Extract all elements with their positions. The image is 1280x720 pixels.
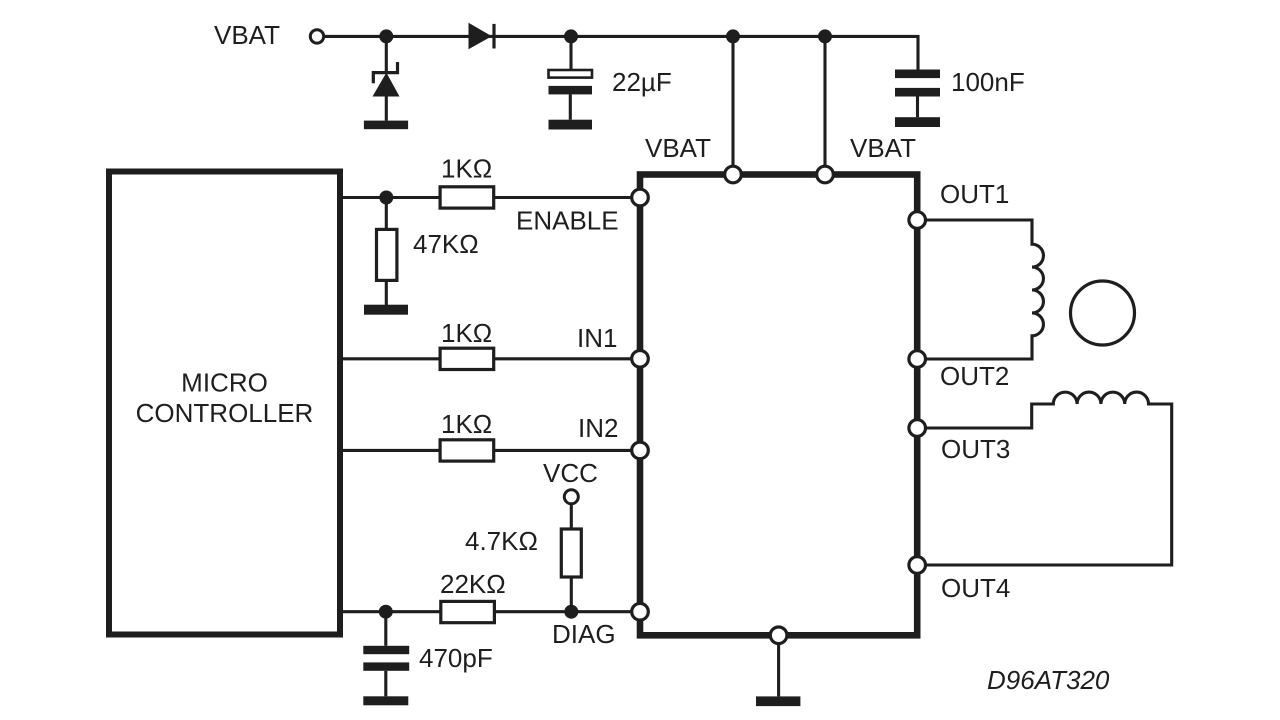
driver IC U1 bbox=[640, 175, 917, 636]
terminal VCC bbox=[564, 490, 578, 504]
pin OUT4 bbox=[909, 557, 926, 574]
junction B (22uF tap) bbox=[564, 29, 578, 43]
zener diode D2 (transient suppressor) bbox=[373, 62, 400, 121]
svg-text:1KΩ: 1KΩ bbox=[441, 409, 492, 439]
wire 47K to ground bbox=[385, 280, 388, 305]
svg-text:OUT4: OUT4 bbox=[941, 573, 1010, 603]
capacitor C2 100nF bbox=[895, 70, 940, 118]
svg-text:IN1: IN1 bbox=[577, 323, 617, 353]
junction G (4.7K to DIAG) bbox=[564, 605, 578, 619]
resistor R1 1K (ENABLE) bbox=[440, 187, 494, 208]
wire junction F down to 470pF bbox=[384, 612, 387, 646]
junction E (47K tap) bbox=[379, 191, 393, 205]
svg-text:VBAT: VBAT bbox=[850, 133, 916, 163]
junction A (zener tap) bbox=[379, 29, 393, 43]
terminal VBAT input bbox=[310, 30, 323, 43]
pin IN1 bbox=[632, 351, 649, 368]
svg-text:D96AT320: D96AT320 bbox=[987, 665, 1110, 695]
inductor L1 (motor winding OUT1-OUT2) bbox=[925, 220, 1043, 359]
pin OUT1 bbox=[909, 212, 926, 229]
junction D (VBAT pin 2 tap) bbox=[818, 29, 832, 43]
wire top rail from VBAT terminal to 100nF corner bbox=[325, 35, 919, 38]
svg-text:ENABLE: ENABLE bbox=[516, 206, 619, 236]
wire junction D down to VBAT pin 2 bbox=[823, 36, 826, 166]
wire VCC to 4.7K bbox=[570, 504, 573, 529]
ground (zener) bbox=[364, 121, 408, 130]
svg-text:MICRO: MICRO bbox=[181, 368, 268, 398]
wire junction B down to 22uF bbox=[569, 36, 572, 70]
svg-text:OUT1: OUT1 bbox=[940, 179, 1009, 209]
svg-text:OUT3: OUT3 bbox=[941, 434, 1010, 464]
ground (470pF) bbox=[363, 696, 408, 705]
pin VBAT 2 bbox=[817, 166, 834, 183]
svg-text:4.7KΩ: 4.7KΩ bbox=[465, 526, 538, 556]
svg-text:470pF: 470pF bbox=[419, 643, 493, 673]
svg-text:CONTROLLER: CONTROLLER bbox=[136, 398, 314, 428]
junction F (470pF tap) bbox=[379, 605, 393, 619]
resistor R6 22K (DIAG) bbox=[441, 601, 495, 622]
capacitor C1 22uF (polarized) bbox=[549, 70, 593, 120]
pin OUT2 bbox=[909, 351, 926, 368]
resistor R2 47K (pulldown) bbox=[377, 229, 397, 280]
motor M (circle) bbox=[1071, 281, 1135, 345]
pin IN2 bbox=[632, 442, 649, 459]
diode D1 (series, reverse battery) bbox=[469, 23, 495, 49]
pin OUT3 bbox=[909, 420, 926, 437]
svg-text:47KΩ: 47KΩ bbox=[413, 229, 479, 259]
inductor L2 (motor winding OUT3-OUT4) bbox=[925, 392, 1171, 565]
wire junction C down to VBAT pin 1 bbox=[731, 36, 734, 166]
svg-text:22KΩ: 22KΩ bbox=[440, 569, 506, 599]
wire junction E down to 47K bbox=[385, 198, 388, 230]
svg-text:22µF: 22µF bbox=[612, 67, 672, 97]
svg-text:DIAG: DIAG bbox=[552, 619, 616, 649]
svg-text:VCC: VCC bbox=[543, 458, 598, 488]
resistor R4 1K (IN2) bbox=[440, 440, 494, 461]
ground (IC) bbox=[756, 696, 800, 706]
svg-text:VBAT: VBAT bbox=[645, 133, 711, 163]
wire 4.7K down to DIAG line bbox=[570, 577, 573, 612]
svg-text:1KΩ: 1KΩ bbox=[441, 318, 492, 348]
wire top rail corner down to 100nF bbox=[916, 35, 919, 70]
resistor R3 1K (IN1) bbox=[440, 348, 494, 369]
junction C (VBAT pin 1 tap) bbox=[726, 29, 740, 43]
ground (100nF) bbox=[895, 117, 940, 127]
wire IN2 line bbox=[343, 449, 640, 452]
pin ENABLE bbox=[632, 189, 649, 206]
resistor R5 4.7K (pullup) bbox=[561, 529, 581, 577]
microcontroller block U2 bbox=[109, 172, 340, 635]
wire ENABLE line bbox=[343, 196, 640, 199]
svg-text:100nF: 100nF bbox=[951, 67, 1025, 97]
ground (47K) bbox=[364, 305, 408, 315]
wire DIAG line bbox=[343, 610, 640, 613]
svg-text:1KΩ: 1KΩ bbox=[441, 154, 492, 184]
pin VBAT 1 bbox=[725, 166, 742, 183]
wire IN1 line bbox=[343, 357, 640, 360]
ground (22uF) bbox=[549, 120, 593, 130]
pin DIAG bbox=[632, 603, 649, 620]
pin GND (IC bottom) bbox=[770, 627, 787, 644]
capacitor C3 470pF bbox=[363, 646, 409, 697]
svg-text:OUT2: OUT2 bbox=[940, 361, 1009, 391]
svg-text:IN2: IN2 bbox=[578, 413, 618, 443]
svg-text:VBAT: VBAT bbox=[214, 20, 280, 50]
wire GND pin down bbox=[777, 643, 780, 696]
wire junction A down to zener bbox=[385, 36, 388, 72]
